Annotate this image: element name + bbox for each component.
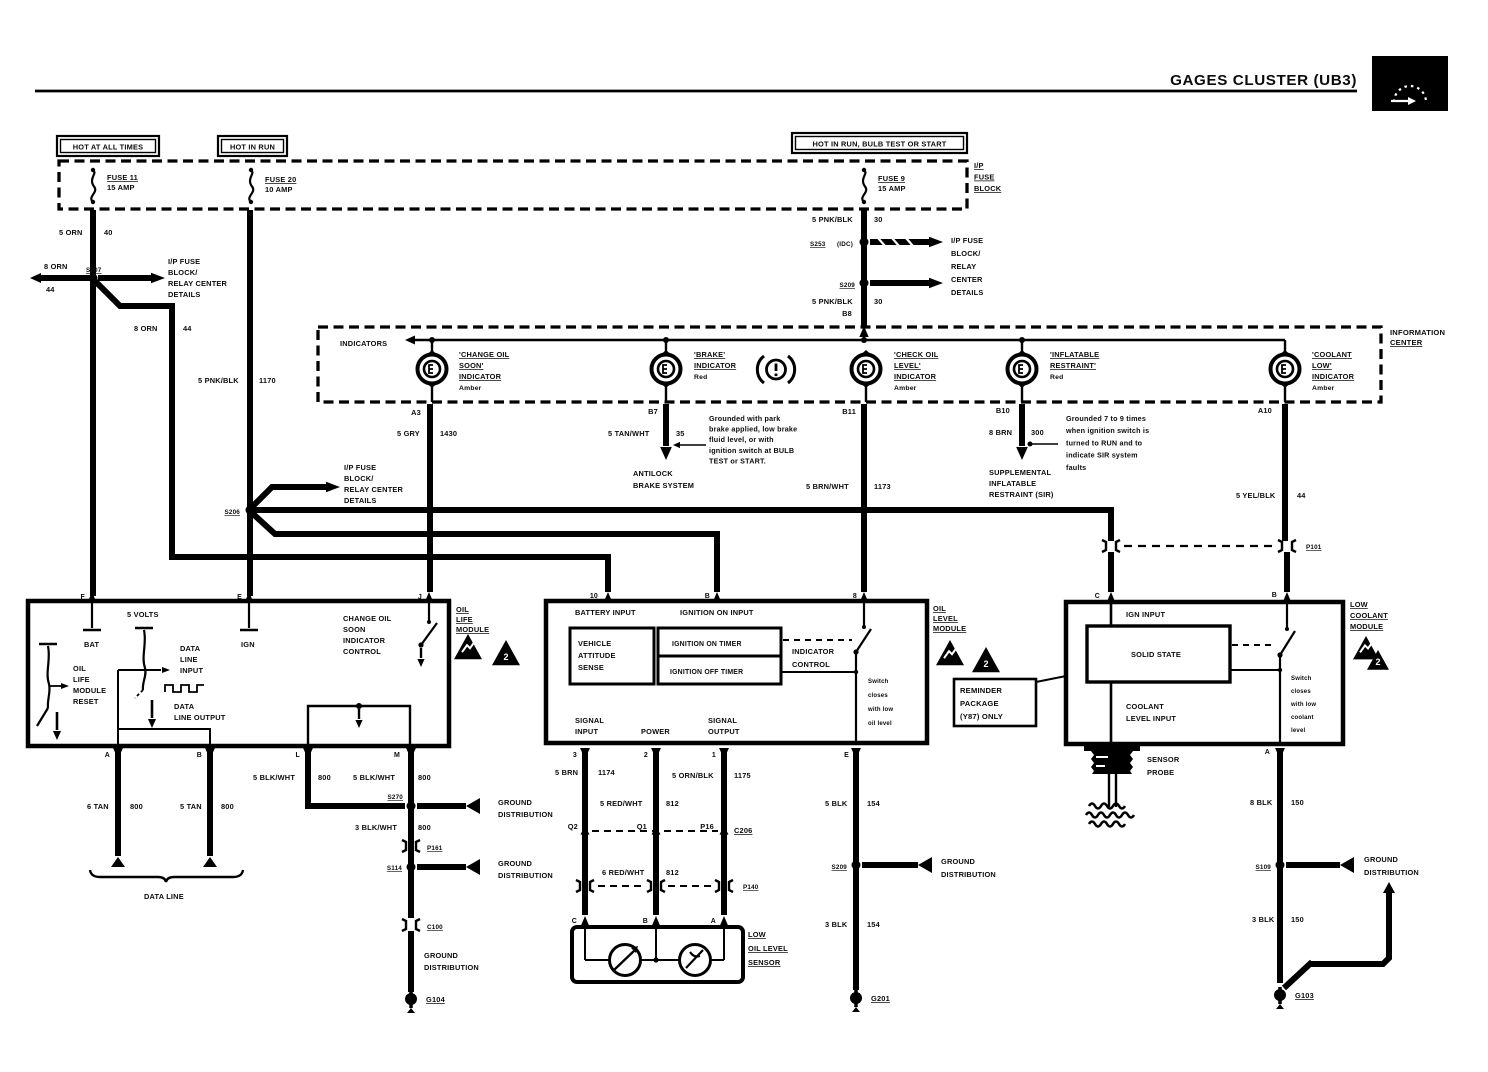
svg-text:INDICATORS: INDICATORS: [340, 339, 387, 348]
svg-text:E: E: [237, 594, 242, 601]
wire: 6 TAN 800 (data line A): [87, 752, 143, 867]
splice S253 (IDC): [810, 238, 869, 249]
ground distribution take-off at S114: [417, 859, 553, 880]
ground distribution take-off at S209: [862, 857, 996, 879]
ground G201: [850, 990, 890, 1012]
svg-text:REMINDER: REMINDER: [960, 686, 1002, 695]
svg-text:INDICATOR: INDICATOR: [343, 636, 386, 645]
svg-text:ANTILOCK: ANTILOCK: [633, 469, 673, 478]
reference arrow: relay center details (S209): [870, 278, 943, 289]
svg-text:LEVEL: LEVEL: [933, 614, 958, 623]
wire: 5 RED/WHT 812 (power, pin 2): [600, 752, 679, 915]
oil life module label + warning triangles: [454, 605, 520, 665]
svg-text:OIL: OIL: [933, 604, 946, 613]
note: brake indicator ground conditions: [709, 414, 797, 465]
svg-text:5 GRY: 5 GRY: [397, 429, 420, 438]
svg-text:RESTRAINT': RESTRAINT': [1050, 361, 1096, 370]
svg-text:SOLID STATE: SOLID STATE: [1131, 650, 1181, 659]
svg-text:RELAY CENTER: RELAY CENTER: [344, 485, 404, 494]
wire: 5 ORN/BLK 1175 (signal output, pin 1): [672, 752, 751, 915]
svg-text:DISTRIBUTION: DISTRIBUTION: [498, 871, 553, 880]
internal loop between pins L and M: [308, 703, 410, 744]
svg-text:INDICATOR: INDICATOR: [694, 361, 737, 370]
svg-text:1173: 1173: [874, 482, 891, 491]
information center label: [1390, 328, 1445, 347]
wire: 5 PNK/BLK 1170 from fuse 20: [198, 210, 276, 596]
low oil level sensor pins C B A: [572, 916, 729, 927]
svg-text:FUSE 20: FUSE 20: [265, 175, 296, 184]
svg-text:RESTRAINT (SIR): RESTRAINT (SIR): [989, 490, 1054, 499]
indicator lamp: INFLATABLE RESTRAINT (red): [1008, 350, 1100, 388]
svg-text:E: E: [844, 752, 849, 759]
svg-text:5 TAN/WHT: 5 TAN/WHT: [608, 429, 650, 438]
svg-text:SOON: SOON: [343, 625, 366, 634]
svg-text:Grounded 7 to 9 times: Grounded 7 to 9 times: [1066, 414, 1146, 423]
svg-text:LOW: LOW: [748, 930, 766, 939]
svg-text:INPUT: INPUT: [575, 727, 598, 736]
low coolant switch: [1230, 603, 1316, 743]
svg-text:FUSE 9: FUSE 9: [878, 174, 905, 183]
svg-text:Grounded with park: Grounded with park: [709, 414, 781, 423]
svg-text:COOLANT: COOLANT: [1350, 611, 1388, 620]
svg-text:5 BRN/WHT: 5 BRN/WHT: [806, 482, 849, 491]
svg-text:LEVEL INPUT: LEVEL INPUT: [1126, 714, 1176, 723]
svg-text:IGN INPUT: IGN INPUT: [1126, 610, 1165, 619]
svg-text:oil level: oil level: [868, 721, 892, 727]
low coolant module pin A: [1265, 748, 1285, 759]
svg-text:S253: S253: [810, 241, 826, 248]
change oil soon indicator control switch (pin J): [343, 592, 437, 667]
svg-text:DISTRIBUTION: DISTRIBUTION: [424, 963, 479, 972]
svg-text:IGNITION OFF TIMER: IGNITION OFF TIMER: [670, 669, 743, 676]
svg-text:800: 800: [221, 802, 234, 811]
svg-text:2: 2: [644, 752, 648, 759]
svg-text:800: 800: [318, 773, 331, 782]
svg-text:RESET: RESET: [73, 697, 99, 706]
svg-text:GROUND: GROUND: [498, 859, 533, 868]
svg-text:L: L: [296, 752, 301, 759]
solid state block: [1087, 626, 1230, 682]
svg-text:'BRAKE': 'BRAKE': [694, 350, 725, 359]
svg-text:800: 800: [418, 773, 431, 782]
ignition on timer block: [658, 628, 781, 656]
wire: 3 BLK/WHT 800: [355, 823, 431, 832]
svg-text:S206: S206: [224, 509, 240, 516]
svg-text:LIFE: LIFE: [73, 675, 90, 684]
svg-text:OIL LEVEL: OIL LEVEL: [748, 944, 788, 953]
svg-text:IGNITION ON TIMER: IGNITION ON TIMER: [672, 641, 742, 648]
svg-text:SIGNAL: SIGNAL: [708, 716, 737, 725]
wire: 5 BRN 1174 (signal input, pin 3): [555, 752, 616, 915]
svg-text:GROUND: GROUND: [1364, 855, 1399, 864]
wire: 5 BLK/WHT 800 from pin L: [253, 752, 405, 806]
svg-text:3 BLK/WHT: 3 BLK/WHT: [355, 823, 397, 832]
svg-text:C: C: [572, 918, 577, 925]
svg-text:DISTRIBUTION: DISTRIBUTION: [498, 810, 553, 819]
data line brace: [90, 870, 243, 901]
note: SIR indicator flash behaviour: [1065, 414, 1149, 472]
svg-text:J: J: [418, 594, 422, 601]
svg-text:DETAILS: DETAILS: [168, 290, 200, 299]
svg-text:B: B: [197, 752, 202, 759]
svg-text:S109: S109: [1255, 864, 1271, 871]
svg-text:30: 30: [874, 297, 883, 306]
oil level module bottom pins 3 2 1 E: [573, 716, 861, 759]
svg-text:INDICATOR: INDICATOR: [792, 647, 835, 656]
ground distribution take-off at S270: [417, 798, 553, 819]
svg-text:OIL: OIL: [73, 664, 86, 673]
svg-text:8 ORN: 8 ORN: [44, 262, 68, 271]
svg-text:Red: Red: [1050, 374, 1063, 381]
svg-text:closes: closes: [1291, 689, 1311, 695]
page title GAGES CLUSTER (UB3): [35, 72, 1357, 91]
svg-text:CENTER: CENTER: [951, 275, 983, 284]
svg-text:'COOLANT: 'COOLANT: [1312, 350, 1352, 359]
svg-text:5 YEL/BLK: 5 YEL/BLK: [1236, 491, 1276, 500]
svg-text:5 TAN: 5 TAN: [180, 802, 202, 811]
svg-text:DISTRIBUTION: DISTRIBUTION: [941, 870, 996, 879]
svg-text:5 BLK/WHT: 5 BLK/WHT: [253, 773, 295, 782]
svg-text:GROUND: GROUND: [498, 798, 533, 807]
svg-text:1174: 1174: [598, 768, 616, 777]
indicators feed wire inside information center: [340, 330, 1285, 352]
svg-text:ignition switch at BULB: ignition switch at BULB: [709, 446, 794, 455]
svg-text:MODULE: MODULE: [456, 625, 489, 634]
svg-text:Amber: Amber: [459, 385, 482, 392]
svg-text:6 TAN: 6 TAN: [87, 802, 109, 811]
fuse F11 (15A): [91, 168, 138, 204]
svg-text:coolant: coolant: [1291, 715, 1314, 721]
svg-text:DATA LINE: DATA LINE: [144, 892, 184, 901]
svg-text:3 BLK: 3 BLK: [825, 920, 848, 929]
svg-text:ATTITUDE: ATTITUDE: [578, 651, 616, 660]
svg-text:PACKAGE: PACKAGE: [960, 699, 999, 708]
low oil level sensor internals (two variable sensors): [585, 927, 724, 976]
svg-text:SOON': SOON': [459, 361, 484, 370]
data line internal wiring: [118, 667, 210, 744]
svg-text:C: C: [1095, 593, 1100, 600]
svg-text:BLOCK/: BLOCK/: [344, 474, 374, 483]
svg-text:BAT: BAT: [84, 640, 100, 649]
indicator lamp: BRAKE (red): [652, 350, 737, 388]
svg-text:with low: with low: [1290, 702, 1316, 708]
coolant (wavy water) symbol: [1086, 804, 1134, 827]
5 volts reference / data line output switch: [135, 628, 226, 728]
svg-text:C206: C206: [734, 826, 752, 835]
I/P fuse block label: [974, 161, 1002, 193]
svg-text:DETAILS: DETAILS: [344, 496, 376, 505]
svg-text:'CHECK OIL: 'CHECK OIL: [894, 350, 939, 359]
splice S270: [387, 794, 415, 811]
svg-text:LOW': LOW': [1312, 361, 1332, 370]
vehicle attitude sense block: [570, 628, 654, 684]
svg-text:GAGES CLUSTER (UB3): GAGES CLUSTER (UB3): [1170, 72, 1357, 89]
svg-text:when ignition switch is: when ignition switch is: [1065, 426, 1149, 435]
park brake warning symbol: [757, 356, 794, 383]
svg-text:MODULE: MODULE: [1350, 622, 1383, 631]
wire: ignition feed bus to oil level module pin B: [252, 513, 717, 592]
svg-text:15 AMP: 15 AMP: [107, 183, 135, 192]
svg-text:INFLATABLE: INFLATABLE: [989, 479, 1036, 488]
svg-text:154: 154: [867, 920, 881, 929]
svg-text:closes: closes: [868, 693, 888, 699]
oil life module (box): [28, 601, 449, 746]
svg-text:OIL: OIL: [456, 605, 469, 614]
svg-text:P16: P16: [700, 822, 714, 831]
indicator lamp: COOLANT LOW (amber): [1271, 350, 1355, 392]
svg-text:44: 44: [46, 285, 55, 294]
svg-text:10 AMP: 10 AMP: [265, 185, 293, 194]
pin B7 / wire 5 TAN/WHT 35 to antilock brake system: [608, 386, 706, 490]
svg-text:8 BRN: 8 BRN: [989, 428, 1012, 437]
svg-text:Q1: Q1: [637, 822, 647, 831]
svg-text:VEHICLE: VEHICLE: [578, 639, 611, 648]
svg-text:Switch: Switch: [868, 679, 889, 685]
feed label box: HOT AT ALL TIMES: [57, 136, 159, 156]
ground G103: [1274, 987, 1314, 1009]
svg-text:1170: 1170: [259, 376, 276, 385]
svg-text:1: 1: [712, 752, 716, 759]
wire: 5 PNK/BLK 30 from fuse 9: [812, 210, 883, 326]
svg-text:5 ORN: 5 ORN: [59, 228, 83, 237]
pin A3 / wire 5 GRY 1430 to oil life module pin J: [397, 386, 457, 592]
svg-text:5 PNK/BLK: 5 PNK/BLK: [812, 297, 853, 306]
wire: 8 BLK 150 (pin A to S109): [1250, 752, 1304, 983]
svg-text:turned to RUN and to: turned to RUN and to: [1066, 438, 1143, 447]
svg-text:brake applied, low brake: brake applied, low brake: [709, 425, 797, 434]
svg-text:2: 2: [503, 652, 508, 662]
svg-text:(Y87) ONLY: (Y87) ONLY: [960, 712, 1003, 721]
svg-text:HOT IN RUN: HOT IN RUN: [230, 143, 275, 152]
I/P fuse block (dashed): [59, 161, 967, 209]
svg-text:800: 800: [130, 802, 143, 811]
svg-text:BLOCK/: BLOCK/: [168, 268, 198, 277]
feed label box: HOT IN RUN, BULB TEST OR START: [792, 133, 967, 153]
indicator control switch inside oil level module: [781, 603, 893, 743]
splice S109: [1255, 861, 1284, 872]
svg-text:B11: B11: [842, 407, 856, 416]
inline connector P101: [1102, 540, 1322, 552]
fuse F9 (15A): [862, 168, 906, 204]
svg-text:I/P: I/P: [974, 161, 984, 170]
inline connector P140: [576, 880, 759, 892]
svg-text:10: 10: [590, 593, 598, 600]
svg-text:A: A: [1265, 749, 1270, 756]
svg-text:A10: A10: [1258, 406, 1272, 415]
wire: 5 BLK/WHT 800 from pin M: [353, 752, 431, 860]
ground distribution take-off at S109: [1286, 855, 1419, 877]
svg-text:RELAY CENTER: RELAY CENTER: [168, 279, 228, 288]
svg-text:CHANGE OIL: CHANGE OIL: [343, 614, 392, 623]
svg-text:S270: S270: [387, 794, 403, 801]
reference arrow: I/P fuse block / relay center details (S206): [252, 463, 404, 507]
svg-text:INPUT: INPUT: [180, 666, 203, 675]
svg-text:1175: 1175: [734, 771, 751, 780]
svg-text:B8: B8: [842, 309, 852, 318]
wire: 5 TAN 800 (data line B): [180, 752, 234, 867]
svg-text:INDICATOR: INDICATOR: [1312, 372, 1355, 381]
svg-text:with low: with low: [867, 707, 893, 713]
inline connector P161: [402, 840, 443, 852]
pin B10 / wire 8 BRN 300 to SIR: [989, 386, 1058, 499]
svg-text:SUPPLEMENTAL: SUPPLEMENTAL: [989, 468, 1051, 477]
svg-text:fluid level, or with: fluid level, or with: [709, 435, 774, 444]
svg-text:CONTROL: CONTROL: [792, 660, 830, 669]
svg-text:3: 3: [573, 752, 577, 759]
svg-text:SENSOR: SENSOR: [748, 958, 781, 967]
svg-text:LINE OUTPUT: LINE OUTPUT: [174, 713, 226, 722]
low coolant module top pins C B: [1095, 592, 1292, 619]
svg-text:812: 812: [666, 799, 679, 808]
pin B8 of information center: [842, 309, 869, 337]
svg-text:G201: G201: [871, 994, 890, 1003]
svg-text:INDICATOR: INDICATOR: [894, 372, 937, 381]
ignition off timer block: [658, 656, 781, 684]
splice S114: [387, 852, 416, 918]
svg-text:15 AMP: 15 AMP: [878, 184, 906, 193]
svg-text:5 RED/WHT: 5 RED/WHT: [600, 799, 643, 808]
svg-text:A3: A3: [411, 408, 421, 417]
oil level module top pins 10 B 8: [575, 592, 869, 617]
splice S206: [224, 506, 254, 517]
svg-text:P140: P140: [743, 884, 759, 891]
indicator lamp: CHANGE OIL SOON (amber): [418, 350, 510, 392]
information center (dashed enclosure): [318, 327, 1381, 402]
oil life module reset switch: [37, 610, 159, 740]
svg-text:'CHANGE OIL: 'CHANGE OIL: [459, 350, 510, 359]
svg-text:A: A: [105, 752, 110, 759]
svg-text:150: 150: [1291, 798, 1304, 807]
svg-text:(IDC): (IDC): [837, 241, 853, 248]
low coolant module (box): [1066, 602, 1343, 744]
svg-text:40: 40: [104, 228, 113, 237]
svg-text:6 RED/WHT: 6 RED/WHT: [602, 868, 645, 877]
svg-text:44: 44: [183, 324, 192, 333]
wire: ignition feed bus to low coolant module pin C: [250, 510, 1111, 592]
svg-text:5 BLK: 5 BLK: [825, 799, 848, 808]
svg-text:8: 8: [853, 593, 857, 600]
svg-text:DATA: DATA: [174, 702, 195, 711]
svg-text:Amber: Amber: [894, 385, 917, 392]
pin A10 / wire 5 YEL/BLK 44 to low coolant module pin B: [1236, 386, 1306, 592]
svg-text:8 BLK: 8 BLK: [1250, 798, 1273, 807]
svg-text:POWER: POWER: [641, 727, 670, 736]
svg-text:M: M: [394, 752, 400, 759]
svg-text:CENTER: CENTER: [1390, 338, 1423, 347]
svg-text:35: 35: [676, 429, 685, 438]
svg-text:GROUND: GROUND: [941, 857, 976, 866]
svg-text:1430: 1430: [440, 429, 457, 438]
svg-text:C100: C100: [427, 924, 443, 931]
svg-text:3 BLK: 3 BLK: [1252, 915, 1275, 924]
svg-text:MODULE: MODULE: [933, 624, 966, 633]
svg-text:PROBE: PROBE: [1147, 768, 1174, 777]
svg-text:S209: S209: [831, 864, 847, 871]
svg-text:B10: B10: [996, 406, 1010, 415]
svg-text:BRAKE SYSTEM: BRAKE SYSTEM: [633, 481, 694, 490]
svg-text:INFORMATION: INFORMATION: [1390, 328, 1445, 337]
svg-text:G104: G104: [426, 995, 446, 1004]
ground G104: [405, 991, 446, 1013]
ground distribution return branch to G103: [1284, 882, 1395, 988]
reference arrow (hatched): I/P fuse block / relay center details (S253): [870, 236, 983, 297]
svg-text:'INFLATABLE: 'INFLATABLE: [1050, 350, 1099, 359]
svg-text:Switch: Switch: [1291, 676, 1312, 682]
svg-text:MODULE: MODULE: [73, 686, 106, 695]
svg-text:5 VOLTS: 5 VOLTS: [127, 610, 159, 619]
svg-text:indicate SIR system: indicate SIR system: [1066, 451, 1138, 460]
oil level module (box): [546, 601, 927, 743]
svg-text:2: 2: [983, 659, 988, 669]
svg-text:2: 2: [1375, 657, 1380, 667]
svg-text:INDICATOR: INDICATOR: [459, 372, 502, 381]
svg-text:5 BLK/WHT: 5 BLK/WHT: [353, 773, 395, 782]
svg-text:A: A: [711, 918, 716, 925]
svg-text:5 PNK/BLK: 5 PNK/BLK: [812, 215, 853, 224]
svg-text:CONTROL: CONTROL: [343, 647, 381, 656]
harness connector line Q2 Q1 P16 C206: [568, 822, 753, 835]
svg-text:IGN: IGN: [241, 640, 255, 649]
svg-text:I/P FUSE: I/P FUSE: [344, 463, 376, 472]
fuse F20 (10A): [249, 168, 297, 204]
oil life module bottom pins A B L M: [105, 748, 416, 759]
svg-text:RELAY: RELAY: [951, 262, 976, 271]
reminder package note box: [954, 676, 1066, 726]
svg-text:Q2: Q2: [568, 822, 578, 831]
svg-text:SIGNAL: SIGNAL: [575, 716, 604, 725]
svg-text:800: 800: [418, 823, 431, 832]
svg-text:LIFE: LIFE: [456, 615, 473, 624]
svg-text:COOLANT: COOLANT: [1126, 702, 1164, 711]
svg-text:44: 44: [1297, 491, 1306, 500]
wire: 5 BLK 154 (pin E to S209): [825, 752, 881, 990]
svg-text:I/P FUSE: I/P FUSE: [951, 236, 983, 245]
svg-text:GROUND: GROUND: [424, 951, 459, 960]
svg-text:P101: P101: [1306, 544, 1322, 551]
svg-text:154: 154: [867, 799, 881, 808]
svg-text:Amber: Amber: [1312, 385, 1335, 392]
pin B11 / wire 5 BRN/WHT 1173 to oil level module pin 8: [806, 386, 891, 592]
splice S207: [86, 267, 102, 283]
svg-text:S209: S209: [839, 282, 855, 289]
wire: 8 ORN 44 from off-page (left): [30, 262, 93, 294]
svg-text:5 BRN: 5 BRN: [555, 768, 578, 777]
svg-text:DATA: DATA: [180, 644, 201, 653]
svg-text:BLOCK/: BLOCK/: [951, 249, 981, 258]
low oil level sensor (box): [572, 927, 788, 982]
svg-text:BLOCK: BLOCK: [974, 184, 1002, 193]
svg-text:812: 812: [666, 868, 679, 877]
svg-text:LOW: LOW: [1350, 600, 1368, 609]
pin F (BAT): [81, 592, 101, 649]
svg-text:Red: Red: [694, 374, 707, 381]
svg-text:HOT AT ALL TIMES: HOT AT ALL TIMES: [73, 143, 144, 152]
svg-text:level: level: [1291, 728, 1305, 734]
svg-text:BATTERY INPUT: BATTERY INPUT: [575, 608, 636, 617]
svg-text:LINE: LINE: [180, 655, 198, 664]
svg-text:P161: P161: [427, 845, 443, 852]
svg-text:B: B: [1272, 592, 1277, 599]
svg-text:S114: S114: [387, 865, 402, 872]
svg-text:DISTRIBUTION: DISTRIBUTION: [1364, 868, 1419, 877]
svg-text:8 ORN: 8 ORN: [134, 324, 158, 333]
reference arrow: I/P fuse block / relay center details (S207): [98, 257, 228, 299]
svg-text:SENSE: SENSE: [578, 663, 604, 672]
svg-text:150: 150: [1291, 915, 1304, 924]
svg-text:B: B: [643, 918, 648, 925]
svg-text:F: F: [81, 594, 86, 601]
svg-text:HOT IN RUN, BULB TEST OR START: HOT IN RUN, BULB TEST OR START: [813, 140, 947, 149]
